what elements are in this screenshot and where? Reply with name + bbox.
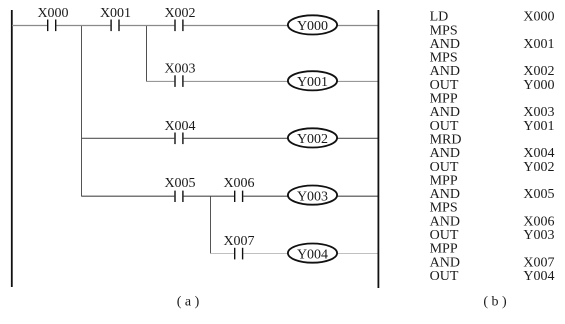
svg-text:X005: X005: [523, 187, 554, 202]
svg-text:Y000: Y000: [523, 78, 554, 93]
svg-text:Y000: Y000: [297, 19, 328, 34]
svg-text:X003: X003: [164, 62, 195, 77]
svg-text:( a ): ( a ): [177, 294, 200, 309]
svg-text:X001: X001: [523, 37, 554, 52]
svg-text:X006: X006: [223, 176, 254, 191]
svg-text:Y001: Y001: [523, 119, 554, 134]
svg-text:X001: X001: [100, 6, 131, 21]
svg-text:( b ): ( b ): [483, 294, 507, 309]
svg-text:X007: X007: [223, 234, 254, 249]
svg-text:X000: X000: [37, 6, 68, 21]
svg-text:X005: X005: [164, 176, 195, 191]
svg-text:Y001: Y001: [297, 75, 328, 90]
svg-text:X004: X004: [164, 119, 195, 134]
svg-text:Y004: Y004: [523, 269, 554, 284]
svg-text:Y002: Y002: [297, 132, 328, 147]
svg-text:Y002: Y002: [523, 160, 554, 175]
svg-text:Y003: Y003: [297, 189, 328, 204]
svg-text:OUT: OUT: [430, 269, 459, 284]
svg-text:Y004: Y004: [297, 247, 328, 262]
svg-text:Y003: Y003: [523, 228, 554, 243]
svg-text:X000: X000: [523, 10, 554, 25]
svg-text:X002: X002: [164, 6, 195, 21]
